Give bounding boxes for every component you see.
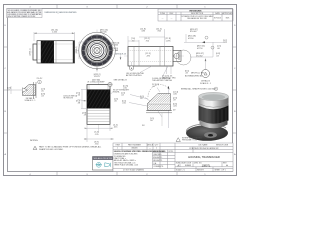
svg-text:NOTES:: NOTES:	[30, 140, 39, 142]
svg-text:1.095: 1.095	[165, 40, 171, 42]
tolerance block dense line	[114, 150, 166, 153]
flange hub	[204, 132, 217, 138]
svg-text:10807L: 10807L	[202, 163, 211, 167]
long view top dims	[128, 29, 165, 47]
BOM header texts	[115, 143, 159, 149]
svg-text:SCALE 8 : 1: SCALE 8 : 1	[200, 82, 212, 85]
svg-text:—: —	[171, 17, 173, 19]
svg-text:8/7/2013: 8/7/2013	[214, 17, 221, 19]
knurl ring	[82, 35, 113, 66]
inner border frame	[8, 9, 233, 172]
svg-text:SHEET 1 OF 1: SHEET 1 OF 1	[215, 169, 226, 171]
front view right dims	[112, 43, 120, 53]
svg-text:KNURL: KNURL	[113, 92, 121, 94]
NOTES block	[30, 140, 39, 142]
front view left dim	[76, 42, 96, 59]
datum balloon bottom-left	[129, 66, 133, 70]
svg-text:2X 45°: 2X 45°	[37, 78, 43, 80]
notes box top-left	[7, 9, 43, 19]
nose extension right end	[173, 51, 181, 62]
between-views callout	[116, 54, 127, 56]
svg-text:COMMENTS:: COMMENTS:	[153, 166, 164, 168]
cylinder body	[199, 97, 229, 121]
svg-text:PCB PIEZOTRONICS DEPEW NY: PCB PIEZOTRONICS DEPEW NY	[189, 148, 219, 150]
flange disc	[186, 125, 228, 141]
projection cone icon	[105, 163, 111, 167]
zone ticks top	[57, 4, 177, 9]
svg-text:RELEASED AT REV NR: RELEASED AT REV NR	[187, 17, 207, 20]
side view: overall dim	[34, 32, 75, 41]
svg-text:Ø1.062: Ø1.062	[190, 31, 197, 33]
name date rows	[153, 150, 173, 168]
svg-text:CHECKED: CHECKED	[153, 154, 162, 156]
vertical section view	[87, 80, 112, 133]
long section view outline	[124, 47, 184, 71]
svg-text:PER ASME Y14.5: PER ASME Y14.5	[182, 139, 197, 142]
svg-text:[Ø30.1]: [Ø30.1]	[30, 48, 32, 55]
detail B balloon	[200, 59, 212, 85]
svg-text:Ø1.345: Ø1.345	[100, 32, 107, 34]
svg-text:1: 1	[35, 148, 36, 150]
svg-text:BREAK ALL SHARP EDGES .005 MA: BREAK ALL SHARP EDGES .005 MAX	[181, 88, 217, 91]
svg-text:SEE DETAIL B: SEE DETAIL B	[114, 79, 128, 82]
title block outer	[113, 143, 233, 172]
svg-text:Ø1.200: Ø1.200	[112, 50, 119, 52]
svg-text:—: —	[149, 148, 151, 150]
svg-text:081A90: 081A90	[131, 147, 137, 150]
right end face dark	[73, 41, 75, 63]
note line right	[181, 88, 217, 91]
long view inner dims	[145, 53, 150, 57]
zone labels top	[29, 7, 206, 9]
svg-text:CAGE CODE: CAGE CODE	[181, 162, 192, 165]
svg-text:DESCR: DESCR	[147, 144, 154, 146]
thread leader center	[63, 95, 78, 100]
svg-text:THD AFTER PLATING: THD AFTER PLATING	[152, 79, 173, 82]
svg-text:THREE PLACE DECIMAL ±.005: THREE PLACE DECIMAL ±.005	[114, 164, 138, 167]
groove line	[199, 104, 229, 108]
svg-text:SENSOR LINE: SENSOR LINE	[216, 144, 229, 146]
side view part outline	[31, 41, 77, 63]
vertical view right leader texts	[113, 89, 130, 129]
vertical view left dims	[81, 90, 87, 109]
svg-text:DESCRIPTION: DESCRIPTION	[191, 13, 204, 15]
svg-text:REV.: REV.	[169, 13, 174, 15]
scale sheet row	[176, 168, 226, 171]
svg-text:DM. NAME: DM. NAME	[199, 143, 209, 146]
svg-text:8/7/13: 8/7/13	[169, 151, 174, 153]
svg-text:DIMENSIONS IN [ ] ARE IN MILLI: DIMENSIONS IN [ ] ARE IN MILLIMETERS	[45, 11, 77, 14]
front view top dim	[100, 30, 108, 34]
stacked dims below detail A	[41, 89, 45, 98]
svg-text:1.345: 1.345	[52, 32, 58, 34]
svg-text:1: 1	[117, 148, 118, 150]
flange left dim text	[30, 48, 32, 55]
notes line top	[45, 11, 77, 14]
front view bottom dim	[96, 68, 98, 72]
svg-text:AS MEASURED AT: AS MEASURED AT	[185, 75, 203, 78]
svg-text:[Ø28.4]: [Ø28.4]	[76, 46, 78, 53]
cylinder top ellipse	[199, 92, 229, 100]
svg-text:DRAWN: DRAWN	[153, 150, 160, 153]
svg-text:ITEM: ITEM	[115, 144, 120, 146]
zone ticks right	[233, 47, 237, 133]
outer border frame	[4, 5, 237, 176]
svg-text:Q.A.: Q.A.	[153, 162, 157, 165]
svg-text:MFG APPR.: MFG APPR.	[153, 159, 163, 162]
zone ticks left	[4, 47, 8, 133]
hatched section detail	[146, 85, 172, 128]
svg-text:APPROVED: APPROVED	[223, 12, 234, 15]
detail A dims	[10, 86, 23, 94]
svg-text:WITHOUT WRITTEN CONSENT OF PCB: WITHOUT WRITTEN CONSENT OF PCB INC	[7, 16, 35, 18]
svg-text:THD PER NOTE: THD PER NOTE	[63, 98, 73, 100]
svg-text:MIN FULL THD: MIN FULL THD	[191, 73, 205, 75]
svg-text:SHARP EDGES .005 MAX.: SHARP EDGES .005 MAX.	[39, 148, 64, 151]
svg-text:Ø.750: Ø.750	[197, 48, 203, 50]
third angle projection box	[93, 157, 114, 171]
size cage dwg row	[176, 162, 227, 165]
company row	[199, 143, 229, 146]
svg-text:ENG APPR.: ENG APPR.	[153, 156, 163, 159]
knurl band vertical view	[87, 90, 110, 109]
svg-text:AFTER PLATING: AFTER PLATING	[126, 74, 142, 77]
svg-text:—: —	[162, 17, 164, 19]
3D shaded render	[186, 92, 229, 140]
tolerance block body	[114, 153, 138, 167]
warning triangle note 1	[33, 146, 102, 151]
svg-text:30°: 30°	[142, 125, 145, 127]
front view circles	[77, 30, 118, 72]
vertical view top texts	[87, 80, 105, 84]
long view leader texts below-left	[126, 72, 145, 77]
detail circle on long view	[176, 50, 191, 65]
svg-text:Ø 1.0900-18 UNEF: Ø 1.0900-18 UNEF	[87, 82, 105, 84]
long view leader texts below-right	[152, 77, 173, 82]
top-right callout cluster	[188, 29, 228, 50]
vertical view bottom dims	[84, 124, 114, 142]
small arrow on leader	[202, 41, 205, 43]
collar below band	[200, 120, 228, 128]
svg-text:[Ø3.3] Ø.13: [Ø3.3] Ø.13	[116, 54, 127, 56]
svg-text:1: 1	[156, 148, 157, 150]
detail A thread profile	[7, 78, 45, 102]
zone labels bottom	[29, 174, 206, 176]
svg-text:PART NUMBER: PART NUMBER	[128, 143, 142, 146]
zone labels left	[4, 25, 6, 156]
proprietary triangle above title block	[176, 137, 203, 142]
svg-text:DATE: DATE	[215, 12, 220, 15]
svg-text:Ø1.340: Ø1.340	[112, 45, 119, 47]
knurl band 3d	[199, 106, 229, 125]
mid-right callouts	[185, 53, 220, 77]
svg-text:ZONE: ZONE	[160, 13, 166, 15]
svg-text:SCALE: 2:1: SCALE: 2:1	[176, 168, 185, 171]
svg-text:Ø.956: Ø.956	[188, 38, 194, 40]
zone labels right	[234, 25, 236, 156]
zone ticks bottom	[57, 172, 177, 176]
svg-text:Ø.875: Ø.875	[94, 76, 100, 78]
note flag 2	[38, 80, 42, 84]
svg-text:WEIGHT:: WEIGHT:	[197, 169, 205, 171]
svg-text:45°: 45°	[173, 110, 176, 112]
svg-text:DO NOT SCALE DRAWING: DO NOT SCALE DRAWING	[123, 168, 145, 171]
svg-text:52681: 52681	[185, 165, 192, 167]
datum target circle	[108, 82, 112, 86]
revision table	[158, 9, 233, 21]
svg-text:HOUSING, TRANSDUCER: HOUSING, TRANSDUCER	[188, 155, 220, 159]
projection circle icon	[96, 162, 102, 167]
knurl band side view	[41, 41, 54, 63]
hatched section leaders/texts	[121, 84, 178, 127]
svg-text:SCALE 8 : 1: SCALE 8 : 1	[24, 99, 36, 102]
